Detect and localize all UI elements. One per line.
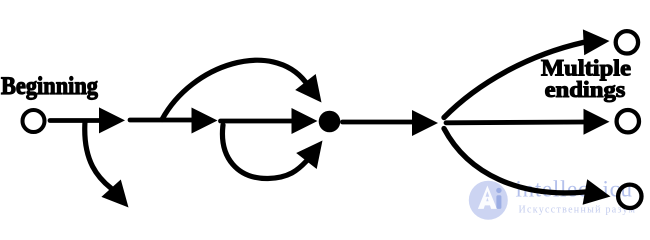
arrowhead A10 lower ending xyxy=(583,179,611,205)
arrowhead A4 top arc xyxy=(295,74,321,103)
wire 1 from start node xyxy=(50,118,101,123)
ending node circle top xyxy=(616,31,638,53)
branch curve up-right xyxy=(444,42,584,117)
svg-text:Искусственный разум: Искусственный разум xyxy=(519,205,636,216)
arrowhead A1 xyxy=(99,107,125,133)
arrowhead A8 upper ending xyxy=(583,29,610,55)
start node circle xyxy=(23,110,45,132)
svg-text:endings: endings xyxy=(545,77,626,102)
branch curve down-right xyxy=(444,129,585,193)
arrowhead A9 middle ending xyxy=(584,109,610,135)
label Multiple endings xyxy=(541,55,631,102)
watermark logo circle Ai xyxy=(469,181,508,220)
top bypass arc xyxy=(162,60,306,119)
wire 5 middle branch xyxy=(446,120,584,126)
svg-text:Beginning: Beginning xyxy=(1,73,98,100)
ending node circle middle xyxy=(617,110,639,132)
arrowhead A5 xyxy=(292,108,318,134)
bottom loop arc xyxy=(222,125,306,179)
merge node black dot xyxy=(319,111,341,133)
arrowhead A6 bottom arc xyxy=(296,141,322,170)
wire 3 xyxy=(221,119,293,124)
wire 4 from merge dot xyxy=(343,120,414,125)
arrowhead A2 dead-end xyxy=(101,180,128,208)
arrowhead A7 xyxy=(412,110,438,136)
wire 2 xyxy=(130,118,193,123)
arrowhead A3 xyxy=(192,108,218,134)
dead-end branch curve down-left xyxy=(85,122,111,189)
ending node circle bottom xyxy=(618,185,641,208)
